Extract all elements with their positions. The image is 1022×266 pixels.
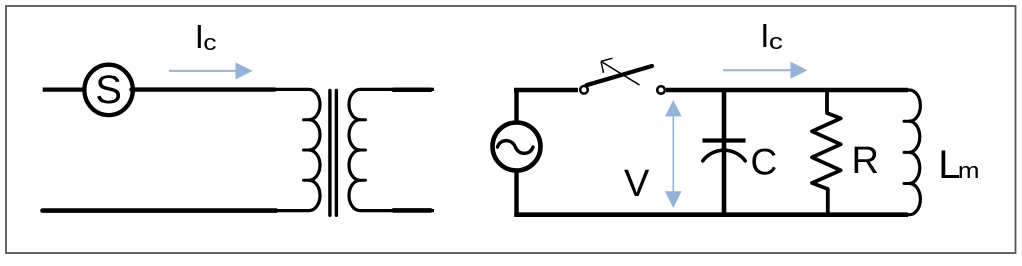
svg-text:c: c <box>769 30 783 54</box>
transformer core line 1 <box>328 91 331 216</box>
source S circle <box>84 65 132 115</box>
transformer core line 2 <box>335 91 338 216</box>
current arrow Ic (left, blue) <box>169 62 253 79</box>
wire: top, source to switch <box>514 88 578 93</box>
capacitor top plate <box>703 138 746 142</box>
AC sine wave <box>498 141 534 154</box>
svg-text:c: c <box>203 31 216 55</box>
svg-text:R: R <box>852 140 879 182</box>
wire: left stub to source S <box>43 87 85 91</box>
capacitor curved plate <box>703 150 745 161</box>
primary cusp tails <box>304 120 311 181</box>
AC source <box>493 123 541 171</box>
switch right terminal <box>657 86 665 94</box>
resistor R zigzag <box>812 88 841 217</box>
wire: rail above source <box>514 88 518 123</box>
secondary cusp tails <box>359 120 366 181</box>
inductor cusp tails <box>904 121 911 183</box>
wire: secondary bottom stub <box>394 208 431 213</box>
wire: bottom rail <box>514 212 908 217</box>
voltage arrow V (blue double) <box>665 100 682 208</box>
wire: source S to transformer primary <box>132 87 275 91</box>
inductor Lm winding <box>890 90 920 215</box>
wire: rail below source <box>514 170 518 217</box>
svg-text:S: S <box>95 68 122 112</box>
current arrow Ic (right, blue) <box>723 62 808 79</box>
wire: top, switch to inductor <box>666 88 908 93</box>
svg-text:m: m <box>958 159 980 184</box>
switch left terminal <box>580 86 588 94</box>
svg-text:C: C <box>751 142 778 183</box>
transformer secondary winding <box>349 89 434 210</box>
transformer primary winding <box>272 89 320 210</box>
switch motion arrow <box>601 58 640 85</box>
wire: left circuit bottom <box>43 208 277 213</box>
svg-text:V: V <box>624 163 650 205</box>
switch blade <box>587 66 653 85</box>
wire: secondary top stub <box>394 88 431 93</box>
capacitor branch wire <box>722 88 727 217</box>
